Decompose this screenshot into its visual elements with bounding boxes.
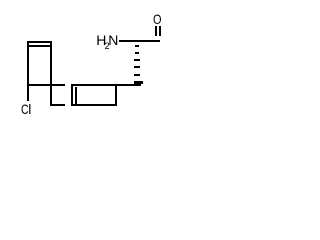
ring A top edge bond — [27, 41, 52, 43]
hashed wedge bond dash 3 — [134, 59, 139, 61]
atom label H2N: H — [96, 33, 106, 47]
ring B right edge — [115, 84, 117, 106]
ring A bottom edge + bond stub right — [27, 84, 65, 86]
hashed wedge bond dash 5 — [134, 74, 141, 76]
ring A left edge + bond to Cl — [27, 41, 29, 101]
hashed wedge bond dash 4 — [134, 66, 140, 68]
lower bond stub from ring A to ring B — [50, 104, 65, 106]
ring B left edge — [71, 84, 73, 106]
C=O double bond line 2 — [159, 26, 161, 36]
hashed wedge bond dash 1 — [135, 45, 139, 47]
atom label H2N: subscript 2 — [105, 42, 110, 51]
C=O double bond line 1 — [155, 26, 157, 36]
ring A right edge + bond down — [50, 41, 52, 106]
atom label O — [153, 12, 161, 26]
atom label Cl — [21, 102, 29, 116]
hashed wedge bond dash 6 — [134, 81, 143, 84]
bond N to stereocenter C — [119, 40, 160, 42]
atom label H2N: N — [108, 33, 118, 47]
ring A top edge inner double-bond line — [29, 45, 50, 47]
ring B bottom edge — [71, 104, 117, 106]
ring B left edge inner double-bond line — [75, 87, 77, 104]
hashed wedge bond dash 2 — [135, 52, 140, 54]
ring B top edge + bond to CH2 — [71, 84, 141, 86]
